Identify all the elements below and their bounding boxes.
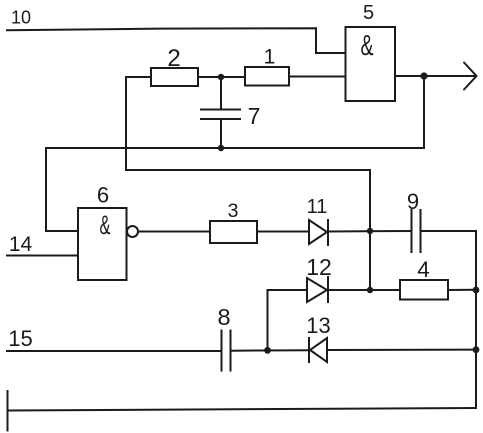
svg-text:11: 11 [307,196,328,218]
svg-text:5: 5 [363,2,374,24]
svg-text:&: & [361,30,374,62]
svg-text:2: 2 [167,45,180,72]
svg-text:3: 3 [228,200,239,222]
svg-text:13: 13 [306,313,330,338]
svg-text:8: 8 [217,304,230,330]
svg-text:9: 9 [407,189,419,214]
svg-text:1: 1 [264,46,276,69]
svg-text:14: 14 [9,233,33,256]
svg-text:7: 7 [248,103,261,129]
svg-text:&: & [100,210,111,240]
svg-text:10: 10 [11,8,31,28]
svg-text:12: 12 [306,254,332,280]
svg-text:6: 6 [97,183,109,208]
svg-text:4: 4 [417,257,430,282]
svg-text:15: 15 [8,326,32,351]
